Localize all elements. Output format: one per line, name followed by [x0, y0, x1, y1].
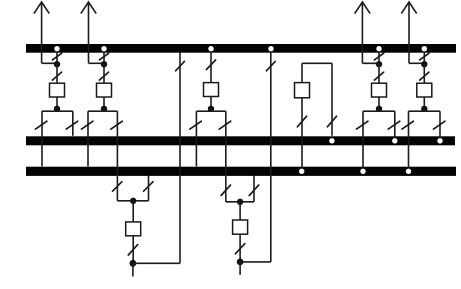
circuit breaker Q6	[372, 83, 387, 97]
wire: bay 2 right branch to busbar W2 (continues to feeder F1)	[116, 111, 118, 201]
node: feeder F1 junction	[130, 198, 136, 204]
disconnector QS7-1 (slash)	[420, 53, 429, 60]
wire: bay 1 breaker to lower node	[56, 97, 58, 109]
wire: feeder F2 junction to breaker	[239, 202, 241, 220]
circuit breaker Q1	[50, 83, 65, 97]
wire: bay 2 dot to breaker	[103, 64, 105, 83]
bypass disconnector line to feeder F2	[270, 52, 272, 262]
node: bay 7 busbar W2 connection (open dot)	[437, 138, 442, 143]
wire: feeder F2 breaker to outlet	[239, 234, 241, 262]
wire: bay 6 left branch to busbar W3	[362, 111, 364, 171]
feeder arrow line L4 (bay 7)	[401, 2, 424, 63]
wire: feeder F1 outlet tail	[132, 263, 134, 276]
disconnector QS-C2 (slash)	[297, 116, 306, 127]
wire: bay 2 left branch to busbar W3	[87, 111, 89, 166]
node: bay 2 lower junction	[101, 106, 107, 112]
node: bay 3 lower junction	[208, 106, 214, 112]
disconnector QS3-2 (slash)	[190, 121, 201, 129]
wire: feeder F1 junction to breaker	[132, 201, 134, 222]
bypass disconnector line to feeder F1	[179, 52, 181, 263]
wire: bay 1 busbar tap	[56, 52, 58, 64]
disconnector QS1-2 (slash)	[52, 72, 61, 80]
wire: bay 1 branch header	[42, 110, 73, 112]
wire: bay 6 dot to breaker	[378, 64, 380, 83]
wire: bay 6 right branch to busbar W2	[394, 111, 396, 140]
wire: bay 2 branch header	[88, 110, 117, 112]
circuit breaker Q7	[417, 83, 432, 97]
bus coupler: riser from busbar W2	[331, 63, 333, 136]
wire: bay 1 left branch to busbar W3	[41, 111, 43, 166]
node: bay 1 busbar W1 connection (open dot)	[54, 46, 59, 51]
node: bay 6 busbar W1 connection (open dot)	[376, 46, 381, 51]
node: bay 7 busbar W3 connection (open dot)	[406, 169, 411, 174]
wire: bay 1 right branch to busbar W2	[72, 111, 74, 136]
wire: feeder F1 breaker to outlet	[132, 236, 134, 263]
node: bay 6 busbar W2 connection (open dot)	[392, 138, 397, 143]
wire: bay 6 breaker to lower node	[378, 97, 380, 109]
feeder F2: right branch from busbar W3	[253, 175, 255, 201]
circuit breaker Q2	[97, 83, 112, 97]
wire: bay 3 busbar tap	[210, 52, 212, 82]
circuit breaker Q-F1	[126, 222, 141, 236]
disconnector QS-F2c (slash)	[235, 244, 244, 254]
circuit breaker Q-F2	[233, 220, 248, 234]
wire: feeder F2 bypass link	[240, 261, 271, 263]
feeder arrow line L3 (bay 6)	[355, 2, 379, 63]
disconnector QS-B2 (slash)	[266, 61, 275, 70]
node: coupler busbar W2 connection (open dot)	[329, 138, 334, 143]
node: bypass 2 busbar W1 connection (open dot)	[268, 46, 273, 51]
disconnector QS7-4 (slash)	[434, 121, 445, 129]
node: feeder F2 junction	[237, 199, 243, 205]
node: feeder F1 outlet	[130, 260, 137, 267]
disconnector QS-F2a (slash)	[249, 185, 258, 196]
wire: feeder F2 outlet tail	[239, 262, 241, 275]
busbar W1 (top main busbar)	[26, 44, 456, 53]
disconnector QS7-3 (slash)	[402, 121, 413, 129]
node: coupler busbar W3 connection (open dot)	[299, 169, 304, 174]
wire: bay 3 left branch to busbar W3	[195, 111, 197, 166]
wire: bay 7 right branch to busbar W2	[439, 111, 441, 140]
node: bay 1 upper junction	[54, 61, 60, 67]
wire: bay 7 dot to breaker	[423, 64, 425, 83]
busbar W3 (bottom busbar)	[26, 167, 456, 176]
node: bay 2 upper junction	[101, 61, 107, 67]
wire: bay 7 left branch to busbar W3	[408, 111, 410, 171]
wire: bay 2 breaker to lower node	[103, 97, 105, 109]
wire: coupler link to breaker	[301, 63, 303, 82]
node: bay 6 busbar W3 connection (open dot)	[360, 169, 365, 174]
wire: coupler breaker to busbar W3	[301, 98, 303, 171]
wire: bay 6 branch header	[363, 110, 395, 112]
wire: bay 3 right branch to busbar W2 (continues to feeder F2)	[225, 111, 227, 202]
wire: feeder F2 branch footer	[226, 201, 254, 203]
node: bay 7 busbar W1 connection (open dot)	[422, 46, 427, 51]
wire: bay 7 branch header	[409, 110, 441, 112]
wire: bay 3 branch header	[196, 110, 225, 112]
wire: bay 7 busbar tap	[423, 52, 425, 64]
disconnector QS2-2 (slash)	[99, 72, 108, 80]
wire: feeder F1 branch footer	[117, 200, 148, 202]
disconnector QS-F1a (slash)	[144, 182, 153, 192]
wire: bay 7 breaker to lower node	[423, 97, 425, 109]
disconnector QS-B1 (slash)	[176, 61, 185, 70]
busbar W2 (middle busbar)	[26, 136, 455, 145]
node: bay 7 lower junction	[421, 106, 427, 112]
disconnector QS6-3 (slash)	[357, 121, 368, 129]
feeder F1: right branch from busbar W3	[148, 175, 150, 200]
node: bay 1 lower junction	[54, 106, 60, 112]
disconnector QS2-4 (slash)	[111, 121, 122, 129]
disconnector QS1-4 (slash)	[66, 121, 77, 129]
node: bay 6 upper junction	[376, 61, 382, 67]
disconnector QS2-1 (slash)	[99, 53, 108, 60]
disconnector QS-F1c (slash)	[128, 245, 137, 255]
wire: coupler top link	[302, 62, 332, 64]
feeder arrow line L1 (bay 1)	[34, 2, 57, 63]
node: feeder F2 outlet	[237, 259, 244, 266]
wire: feeder F1 bypass link	[133, 262, 180, 264]
node: bay 7 upper junction	[421, 61, 427, 67]
node: bay 3 busbar W1 connection (open dot)	[208, 46, 213, 51]
disconnector QS3-1 (slash)	[206, 60, 215, 70]
wire: bay 6 busbar tap	[378, 52, 380, 64]
wire: bay 3 breaker to lower node	[210, 97, 212, 109]
disconnector QS-F1b (slash on left branch)	[113, 182, 122, 192]
disconnector QS1-1 (slash)	[52, 53, 61, 60]
node: bay 6 lower junction	[376, 106, 382, 112]
disconnector QS1-3 (slash)	[36, 121, 47, 129]
circuit breaker Q3	[204, 83, 219, 97]
disconnector QS6-2 (slash)	[374, 72, 383, 80]
disconnector QS6-4 (slash)	[388, 121, 399, 129]
circuit breaker Q5 (bus coupler)	[295, 83, 310, 98]
disconnector QS7-2 (slash)	[420, 72, 429, 80]
disconnector QS3-3 (slash)	[219, 121, 230, 129]
disconnector QS6-1 (slash)	[374, 53, 383, 60]
disconnector QS-C1 (slash)	[327, 116, 336, 127]
wire: bay 1 dot to breaker	[56, 64, 58, 83]
wire: bay 2 busbar tap	[103, 52, 105, 64]
feeder arrow line L2 (bay 2)	[81, 2, 104, 63]
node: bay 2 busbar W1 connection (open dot)	[101, 46, 106, 51]
disconnector QS2-3 (slash)	[82, 121, 93, 129]
disconnector QS-F2b (slash on left branch)	[221, 185, 230, 196]
